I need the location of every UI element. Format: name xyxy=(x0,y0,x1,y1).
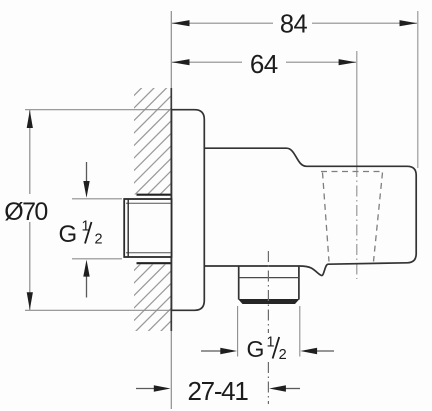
G1/2 left extension line bottom xyxy=(72,258,122,260)
svg-text:2: 2 xyxy=(279,347,287,363)
extension line flange top (for diameter 70) xyxy=(25,109,171,111)
inlet socket wall-pipe lower line xyxy=(137,262,171,264)
svg-text:64: 64 xyxy=(250,49,278,79)
dimension 84 left arrow xyxy=(172,20,190,26)
svg-text:2: 2 xyxy=(95,232,103,248)
svg-text:27-41: 27-41 xyxy=(188,376,249,406)
dimension 84 line xyxy=(172,22,273,24)
G1/2 bottom left arrow xyxy=(201,350,222,352)
outlet thread line xyxy=(239,277,299,279)
G1/2 bottom right arrow xyxy=(316,350,335,352)
svg-text:84: 84 xyxy=(280,11,308,39)
dimension 64 left arrow xyxy=(172,59,190,65)
G1/2 left label xyxy=(59,219,103,248)
hand shower cone (hidden outline, dashed) top xyxy=(321,171,384,173)
dimension diameter-70 line xyxy=(29,110,31,194)
wall surface line xyxy=(170,88,172,331)
outlet nipple left edge xyxy=(238,266,240,300)
G1/2 bottom extension line right xyxy=(299,306,301,357)
dimension 27-41 left arrow xyxy=(136,388,156,390)
svg-text:1: 1 xyxy=(267,335,275,351)
hand shower cone dashed left edge xyxy=(323,173,330,262)
svg-text:Ø70: Ø70 xyxy=(4,198,47,226)
inlet socket double left edge xyxy=(127,200,129,257)
dimension 64 line xyxy=(172,61,242,63)
svg-text:G: G xyxy=(59,221,78,248)
hand shower cone dashed right edge xyxy=(374,173,383,262)
center line cone axis (dash-dot through body) xyxy=(356,166,358,279)
G1/2 left top arrow xyxy=(86,162,88,184)
inlet socket inner bottom line xyxy=(126,252,171,254)
outlet chamfered end (dark) xyxy=(238,299,300,304)
dimension 84 right arrow xyxy=(400,20,418,26)
dimension 27-41 right arrow xyxy=(284,388,300,390)
extension line wall-surface (bottom, for 27-41 dim) xyxy=(170,331,172,409)
extension line flange bottom (for diameter 70) xyxy=(25,309,171,311)
G1/2 bottom extension line left xyxy=(237,306,239,357)
inlet socket inner top line xyxy=(126,202,171,204)
inlet socket body xyxy=(124,199,171,257)
dimension 64 right arrow xyxy=(339,59,357,65)
body outline xyxy=(204,148,416,275)
extension line cone axis top (for 64 dim) xyxy=(356,51,358,166)
dimension diameter-70 top arrow xyxy=(27,110,33,128)
G1/2 left extension line top xyxy=(72,198,122,200)
inlet socket wall-pipe upper line xyxy=(137,194,171,196)
G1/2 bottom label xyxy=(247,335,287,364)
extension line wall-surface (top, for 84/64 dims) xyxy=(170,11,172,88)
center line outlet axis (dash-dot) xyxy=(267,251,269,333)
outlet nipple right edge xyxy=(298,266,300,300)
svg-text:G: G xyxy=(247,336,265,362)
G1/2 left bottom arrow xyxy=(86,274,88,298)
dimension diameter-70 bottom arrow xyxy=(27,292,33,310)
extension line body right edge (for 84 dim) xyxy=(417,11,419,168)
flange escutcheon plate xyxy=(172,110,205,311)
